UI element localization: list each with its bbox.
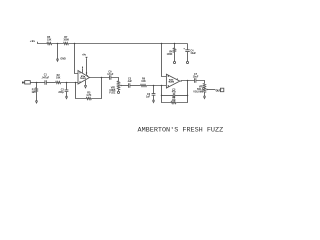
wire: U1 output bbox=[90, 77, 110, 79]
wire: U2 output bbox=[180, 80, 195, 83]
svg-text:6: 6 bbox=[168, 86, 169, 88]
ground arrow R1 bbox=[36, 101, 38, 103]
+9v supply label bbox=[30, 39, 36, 43]
svg-text:7: 7 bbox=[177, 79, 178, 81]
node C junction bbox=[161, 43, 163, 45]
capacitor C5 bbox=[162, 88, 188, 97]
node 3 junction bbox=[75, 82, 77, 84]
node 8 junction bbox=[161, 95, 163, 97]
svg-text:10uF: 10uF bbox=[190, 52, 196, 55]
node 9 junction bbox=[187, 95, 189, 97]
svg-text:4.7uF: 4.7uF bbox=[107, 73, 114, 76]
wire: node A down bbox=[57, 44, 59, 60]
ground pin U1 bbox=[84, 80, 86, 88]
wire: C9 to VR1 bbox=[111, 78, 119, 81]
svg-text:GND: GND bbox=[60, 57, 66, 60]
wire: R6 to op-amp U2 inverting input bbox=[147, 85, 167, 87]
terminal pad R4 bbox=[173, 61, 175, 63]
title text bbox=[138, 127, 224, 135]
svg-text:.047uF: .047uF bbox=[42, 76, 50, 79]
terminal pad C4 bbox=[186, 61, 188, 63]
resistor R2 bbox=[56, 74, 61, 84]
node 1 junction bbox=[36, 82, 38, 84]
wire: C7 to VR2 bbox=[196, 81, 205, 84]
potentiometer VR2 bbox=[193, 83, 207, 94]
svg-text:8: 8 bbox=[82, 67, 83, 69]
ground arrow C2 bbox=[66, 96, 68, 98]
svg-text:1: 1 bbox=[87, 76, 88, 78]
ground arrow VR2 bbox=[204, 94, 206, 98]
svg-text:4.7K: 4.7K bbox=[86, 94, 91, 97]
svg-text:100K: 100K bbox=[167, 53, 173, 56]
wire: node B to op-amp U1 noninverting input bbox=[75, 44, 79, 74]
svg-text:.1uF: .1uF bbox=[127, 80, 132, 83]
input jack IN bbox=[22, 81, 30, 85]
capacitor C7 bbox=[193, 73, 199, 83]
wire: VR2 wiper to output jack bbox=[208, 89, 216, 91]
wire: R2 to op-amp U1 inverting input bbox=[61, 82, 78, 84]
wire: C1 to R2 bbox=[46, 82, 55, 84]
svg-text:3: 3 bbox=[79, 72, 80, 74]
svg-text:15K: 15K bbox=[47, 39, 52, 42]
feedback loop U2 wire bbox=[162, 81, 188, 103]
ground arrow C6 bbox=[153, 100, 155, 102]
capacitor C6 bbox=[146, 86, 156, 101]
wire: +9v rail bbox=[38, 42, 188, 44]
svg-text:TL072: TL072 bbox=[80, 78, 85, 80]
svg-text:1M: 1M bbox=[172, 99, 175, 102]
resistor R1 bbox=[31, 83, 37, 102]
node 4 junction bbox=[101, 77, 103, 79]
capacitor C3 bbox=[127, 77, 132, 88]
svg-text:220p: 220p bbox=[58, 91, 64, 94]
output jack OUT bbox=[216, 88, 224, 92]
svg-text:VOLUME: VOLUME bbox=[193, 91, 204, 94]
svg-text:IN: IN bbox=[22, 81, 25, 85]
svg-text:+9v: +9v bbox=[30, 39, 36, 43]
svg-text:5: 5 bbox=[168, 76, 169, 78]
power pin U1 stub bbox=[82, 67, 83, 73]
capacitor C9 bbox=[107, 70, 114, 79]
node 6 junction bbox=[161, 85, 163, 87]
svg-text:47p: 47p bbox=[172, 91, 177, 94]
wire: node C to op-amp U2 noninverting input bbox=[162, 44, 167, 77]
svg-text:10K: 10K bbox=[56, 76, 61, 79]
resistor R8 bbox=[171, 97, 176, 104]
resistor R4 bbox=[167, 44, 176, 62]
svg-text:AMBERTON'S FRESH FUZZ: AMBERTON'S FRESH FUZZ bbox=[138, 127, 224, 135]
svg-text:1M: 1M bbox=[31, 91, 34, 94]
svg-text:10K: 10K bbox=[141, 80, 146, 83]
svg-text:FUZZ: FUZZ bbox=[109, 92, 116, 95]
svg-text:TL072: TL072 bbox=[168, 82, 173, 84]
node A junction bbox=[57, 43, 59, 45]
wire: VR1 wiper to C3 bbox=[121, 85, 128, 87]
feedback loop U1 wire bbox=[76, 78, 102, 99]
svg-text:2: 2 bbox=[79, 81, 80, 83]
svg-text:1uF: 1uF bbox=[146, 96, 151, 99]
capacitor C1 bbox=[42, 74, 50, 85]
node 5 junction bbox=[153, 85, 155, 87]
svg-text:10uF: 10uF bbox=[193, 76, 199, 79]
resistor R3 bbox=[86, 92, 91, 100]
power pin U1 V+ bbox=[82, 54, 88, 76]
potentiometer VR1 bbox=[109, 81, 121, 95]
terminal pad VR1 bbox=[117, 91, 119, 93]
ground arrow node A bbox=[57, 57, 66, 61]
node D junction bbox=[174, 43, 176, 45]
resistor R6 bbox=[141, 77, 147, 86]
op-amp U2 bbox=[166, 74, 179, 88]
node 2 junction bbox=[66, 82, 68, 84]
node B junction bbox=[74, 43, 76, 45]
node 7 junction bbox=[187, 80, 189, 82]
wire: input jack to C1 bbox=[30, 82, 45, 84]
op-amp U1 bbox=[78, 71, 90, 85]
svg-text:+9v: +9v bbox=[82, 54, 87, 57]
capacitor C4 bbox=[184, 44, 197, 62]
svg-text:100K: 100K bbox=[63, 39, 69, 42]
wire: C3 to R6 bbox=[130, 85, 141, 87]
resistor R7 bbox=[63, 36, 69, 45]
resistor R5 bbox=[47, 36, 52, 45]
capacitor C2 bbox=[58, 83, 68, 97]
